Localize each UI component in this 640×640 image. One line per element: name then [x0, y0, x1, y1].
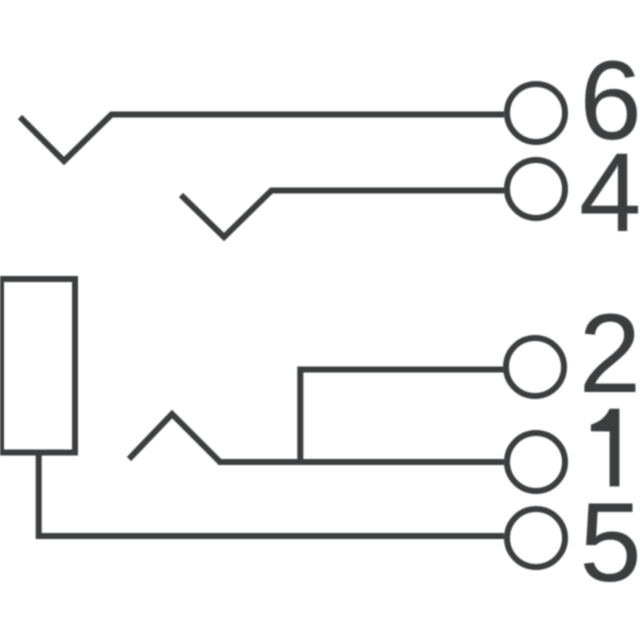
pin number label 1 — [591, 409, 620, 487]
jack bushing (sleeve body rectangle) — [1, 279, 75, 453]
terminal circle pin 2 — [506, 338, 564, 396]
switch lever SW-A (tip normally-closed contact for pin 6) — [20, 114, 112, 161]
terminal circle pin 6 — [507, 84, 565, 142]
svg-text:2: 2 — [579, 291, 640, 416]
terminal circle pin 4 — [507, 160, 565, 218]
terminal circle pin 1 — [507, 433, 565, 491]
wire sleeve to pin 5 — [39, 452, 504, 536]
terminal circle pin 5 — [507, 509, 565, 567]
svg-text:4: 4 — [579, 130, 640, 255]
wire pin 6 — [110, 112, 504, 118]
switch lever SW-B (ring normally-closed contact for pin 4) — [181, 190, 272, 237]
wire pin 1 — [218, 459, 504, 465]
svg-text:5: 5 — [579, 480, 640, 605]
wire pin 4 — [270, 188, 504, 194]
switch lever SW-C (contact for pin 1) — [129, 414, 220, 462]
wire branch junction pin 2 to pin 1 — [300, 370, 504, 463]
